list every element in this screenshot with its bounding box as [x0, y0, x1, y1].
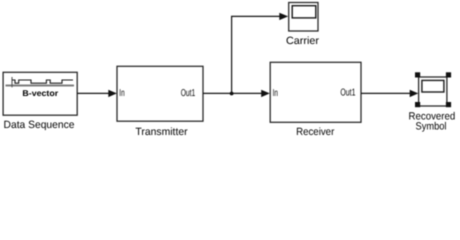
selection handle top-left [415, 72, 420, 77]
block Receiver [270, 62, 361, 122]
Data Sequence icon axis vertical [11, 77, 13, 87]
selection handle top-right [446, 72, 451, 77]
junction node [230, 92, 234, 96]
svg-text:Out1: Out1 [340, 88, 355, 99]
wire Data Sequence to Transmitter [77, 90, 117, 97]
block Data Sequence [3, 72, 77, 115]
Data Sequence icon square wave [12, 80, 73, 83]
wire junction to Carrier [232, 13, 289, 94]
scope Recovered Symbol [419, 77, 447, 106]
selection handle bottom-right [446, 102, 451, 107]
svg-text:Carrier: Carrier [286, 35, 320, 47]
svg-text:In: In [273, 88, 278, 99]
scope Carrier [289, 3, 318, 32]
svg-text:Out1: Out1 [181, 88, 196, 99]
svg-text:In: In [119, 88, 124, 99]
svg-text:Transmitter: Transmitter [135, 126, 188, 138]
svg-text:Data Sequence: Data Sequence [4, 119, 75, 131]
wire Transmitter to Receiver [203, 90, 270, 97]
svg-text:Symbol: Symbol [416, 120, 447, 132]
svg-text:Receiver: Receiver [296, 126, 335, 138]
svg-text:B-vector: B-vector [22, 88, 59, 98]
selection handle bottom-left [415, 102, 420, 107]
block Transmitter [117, 66, 203, 121]
Data Sequence icon axis baseline [6, 85, 75, 87]
wire Receiver to Recovered Symbol [361, 90, 418, 97]
